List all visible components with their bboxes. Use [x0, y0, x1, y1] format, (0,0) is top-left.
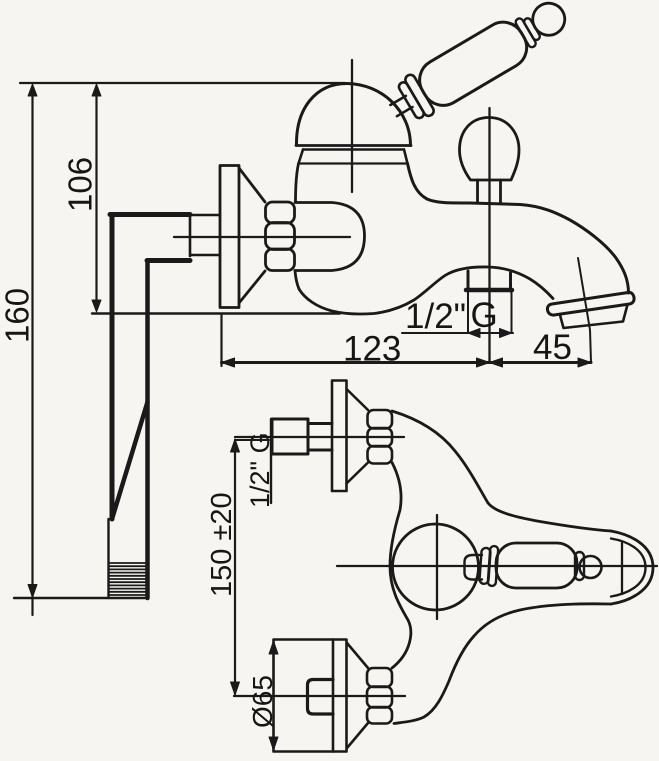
dome center line vertical [351, 60, 353, 192]
handle ferrule ring 1 [397, 81, 425, 120]
dome [296, 84, 410, 146]
plan ferrule ring1 [479, 548, 490, 585]
plan bottom cone [347, 643, 368, 748]
nut band 1 [266, 202, 295, 223]
handle neck [390, 96, 412, 116]
plan handle stem [465, 555, 483, 580]
diverter seat verticals [468, 271, 511, 291]
handle ring B [523, 17, 541, 41]
arrow 150 bottom [231, 682, 240, 695]
bonnet skirt sides [299, 150, 408, 164]
plan body top outline [392, 411, 611, 531]
arrow 45 left [490, 358, 503, 367]
seat extension lines [468, 291, 512, 333]
plan top nut band3 [368, 446, 393, 464]
1/2G underline plan [270, 419, 272, 503]
aerator tip [560, 305, 628, 329]
plan top cone [347, 389, 369, 484]
wall bracket thick L2 [147, 258, 190, 263]
plan top pipe center line [235, 436, 404, 438]
diverter center line [488, 108, 490, 361]
pipe center line [174, 236, 350, 238]
plan body left waist [390, 463, 411, 669]
arrow 160 top [28, 84, 37, 96]
wall bracket thick L1 [110, 212, 190, 217]
plate divider [332, 640, 335, 752]
plan ferrule ring2 [488, 546, 499, 586]
svg-text:1/2" G: 1/2" G [245, 432, 275, 508]
handle ball [527, 0, 571, 41]
plan end cap center line [621, 543, 623, 594]
plan top nut band2 [368, 428, 393, 447]
wall pipe stub [190, 214, 220, 256]
nut band 2 [266, 223, 295, 250]
plan end cap inner [611, 539, 646, 597]
svg-text:45: 45 [533, 328, 572, 367]
svg-text:G: G [471, 296, 498, 335]
escutcheon plate (side view) [220, 166, 239, 308]
hose ribs block [109, 519, 148, 598]
tick at 160 bottom [14, 597, 148, 599]
plan top escutcheon plate [332, 381, 347, 492]
plan bottom nut band3 [367, 707, 392, 724]
plan bottom nut band1 [367, 668, 392, 687]
arrow 106 bottom [92, 300, 101, 312]
dimension line 160 vertical [31, 86, 33, 615]
body left profile [296, 164, 299, 203]
extension line through outlet (45) [578, 258, 591, 362]
spout outlet flange [547, 292, 634, 315]
plan bottom inner square [308, 680, 334, 715]
arrow 45 right [578, 358, 591, 367]
arrow 1/2G right [500, 329, 512, 338]
arrow 1/2G left [468, 329, 480, 338]
bonnet bottom / crosshair arm [299, 162, 407, 164]
arrow 150 top [231, 439, 240, 452]
dimension top reference line [20, 82, 345, 84]
body bottom wavy outline [299, 267, 553, 314]
svg-text:123: 123 [343, 330, 401, 369]
dimension line 106 vertical [95, 86, 97, 310]
nut band 3 [266, 249, 295, 271]
Ø65 arrows [269, 641, 278, 654]
circle vertical center line [436, 515, 438, 619]
arrow 123 left [222, 358, 235, 367]
plan bottom nut band2 [367, 687, 392, 708]
handle assembly rotated [382, 0, 575, 131]
bracket diagonal [112, 402, 148, 519]
extension line 123 left [220, 315, 222, 366]
plan horizontal center line [337, 565, 657, 567]
plan bottom escutcheon plate [274, 640, 347, 752]
extension line at y=313 [92, 312, 340, 314]
plan ring [575, 552, 584, 580]
body left profile below boss [295, 271, 299, 290]
plan bottom pipe center line [234, 695, 405, 697]
plan top nut band1 [368, 410, 393, 429]
tick at 150 top [235, 439, 269, 441]
handle ferrule ring 2 [404, 73, 436, 118]
plan ball [580, 556, 602, 578]
dome base line [296, 144, 411, 147]
diverter seat bar (thick) [466, 288, 512, 293]
plan body bottom outline [394, 604, 611, 724]
body inlet boss [295, 203, 365, 271]
svg-text:Ø65: Ø65 [247, 675, 278, 728]
svg-text:160: 160 [0, 288, 36, 343]
plan top pipe stub [272, 419, 332, 454]
arrow 123 right [477, 358, 490, 367]
diverter knob [460, 118, 520, 181]
plan grip [496, 543, 577, 588]
escutcheon cone [239, 168, 265, 303]
dimension line 1/2 G small [402, 332, 513, 334]
cartridge circle [393, 524, 479, 610]
svg-text:1/2": 1/2" [405, 297, 466, 336]
handle grip [412, 14, 535, 113]
main dimension line 123/45 [222, 361, 592, 364]
dimension 150 line [234, 440, 236, 694]
diverter stem [478, 180, 501, 203]
svg-text:150 ±20: 150 ±20 [206, 492, 238, 597]
arrow 160 bottom [28, 585, 37, 598]
dome rim second line [303, 148, 404, 150]
plan end cap outer [611, 531, 653, 604]
svg-text:106: 106 [62, 157, 99, 212]
body right profile to spout top [408, 164, 629, 294]
arrow 106 top [92, 84, 101, 96]
handle ring A [514, 17, 537, 48]
